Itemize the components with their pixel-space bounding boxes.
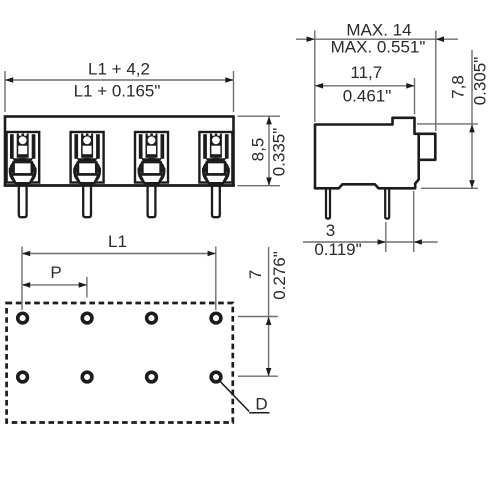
dimension 3: right arrow (outside, pointing left): [414, 239, 422, 245]
dimension L1: right arrow: [208, 251, 216, 257]
pole 1 wire hole square: [18, 146, 27, 155]
dimension 3: left arrow (outside, pointing right): [378, 239, 386, 245]
pole 3 screw slot: [142, 162, 160, 174]
front view housing body outline: [5, 117, 234, 186]
side view body right edge through tab: [417, 134, 420, 160]
pole 3 left slot bar: [139, 134, 143, 159]
dimension L1: left extension line: [21, 247, 23, 311]
svg-text:7,8: 7,8: [449, 75, 468, 99]
dimension 8,5: top arrow: [266, 116, 272, 124]
dimension 7: bottom extension line: [238, 375, 278, 377]
dimension MAX.14: left extension line: [314, 31, 316, 123]
pole 1 wire hole circle: [19, 136, 27, 144]
dimension 11,7: right extension line: [414, 78, 416, 114]
svg-text:L1 + 0.165": L1 + 0.165": [74, 82, 161, 101]
svg-text:L1 + 4,2: L1 + 4,2: [88, 60, 150, 79]
dimension MAX.14: right arrow (outside, pointing left): [436, 36, 444, 42]
pole 1 right slot bar: [32, 134, 36, 159]
svg-text:0.119": 0.119": [314, 240, 361, 259]
pole 4 screw side nubs: [202, 168, 206, 173]
footprint hole row 1 col 4: [211, 313, 221, 323]
pole 4 top notches: [212, 133, 215, 136]
dimension 8,5: bottom arrow: [266, 178, 272, 186]
pole 1 left slot bar: [10, 134, 14, 159]
pole 3 wire hole square: [147, 146, 156, 155]
dimension 7,8: bottom arrow: [469, 180, 475, 188]
dimension 7: bottom arrow: [266, 368, 272, 376]
dimension L1+4,2: dimension line: [5, 79, 234, 81]
pole 3 housing cell: [135, 132, 168, 183]
pole 2 housing cell: [71, 132, 104, 183]
dimension P: dimension line: [22, 284, 87, 286]
svg-text:7: 7: [246, 270, 265, 279]
dimension 3: left extension line (from right pin): [385, 222, 387, 252]
pole 2 screw bottom skirt: [76, 175, 99, 184]
svg-text:11,7: 11,7: [350, 63, 382, 82]
dimension 7: top extension line: [238, 316, 278, 318]
dimension 11,7: left arrow: [315, 83, 323, 89]
front view solder pin 2: [83, 184, 91, 217]
dimension MAX.14: right extension line: [435, 31, 437, 132]
dimension MAX.14: dimension line: [296, 38, 458, 40]
svg-text:0.305": 0.305": [470, 57, 489, 106]
pole 3 screw head circle: [139, 159, 164, 184]
dimension L1+4,2: left arrow: [5, 77, 13, 83]
pole 4 right slot bar: [225, 134, 229, 159]
dimension 8,5: top extension line: [238, 115, 281, 117]
side view left solder pin: [326, 186, 330, 219]
pole 4 screw slot: [207, 162, 225, 174]
svg-text:D: D: [255, 395, 267, 414]
dimension L1: right extension line: [215, 247, 217, 311]
svg-text:0.461": 0.461": [343, 87, 392, 106]
dimension P: right extension tick: [86, 277, 88, 298]
pole 2 wire hole square: [83, 146, 92, 155]
svg-text:8,5: 8,5: [249, 138, 268, 162]
svg-text:L1: L1: [108, 232, 127, 251]
pole 3 screw side nubs: [138, 168, 142, 173]
pole 4 screw bottom skirt: [204, 175, 227, 184]
dimension P: right arrow: [79, 282, 87, 288]
pole 4 housing cell: [199, 132, 232, 183]
pole 1 screw head circle: [10, 159, 35, 184]
svg-text:3: 3: [326, 221, 335, 240]
front view solder pin 3: [148, 184, 156, 217]
svg-text:0.335": 0.335": [269, 128, 288, 177]
pole 2 screw side nubs: [73, 168, 77, 173]
svg-text:MAX. 14: MAX. 14: [346, 20, 411, 39]
pole 4 wire hole square: [211, 146, 220, 155]
pole 1 clamp lower band: [13, 158, 33, 161]
footprint hole row 1 col 1: [18, 313, 28, 323]
pole 3 clamp lower band: [141, 158, 161, 161]
svg-text:P: P: [50, 263, 61, 282]
svg-text:0.276": 0.276": [270, 251, 289, 300]
footprint hole row 2 col 1: [18, 372, 28, 382]
pole 2 right slot bar: [96, 134, 100, 159]
pole 2 screw slot: [78, 162, 96, 174]
footprint hole row 1 col 3: [147, 313, 157, 323]
pole 1 housing cell: [7, 132, 40, 183]
dimension 7,8: dimension line: [471, 50, 473, 188]
side view housing outline: [315, 118, 435, 189]
pole 4 screw head circle: [203, 159, 228, 184]
dimension L1+4,2: right arrow: [225, 77, 233, 83]
front view solder pin 1: [19, 184, 27, 217]
dimension L1+4,2: left extension line: [4, 71, 6, 112]
pole 2 wire hole circle: [83, 136, 91, 144]
dimension 7,8: top arrow: [469, 124, 475, 132]
footprint hole row 2 col 3: [147, 372, 157, 382]
pole 1 top notches: [19, 133, 22, 136]
dimension 7,8: top extension line: [417, 123, 478, 125]
dimension L1: dimension line: [22, 253, 216, 255]
footprint hole row 2 col 4: [211, 372, 221, 382]
pole 4 clamp lower band: [206, 158, 226, 161]
pole 4 wire hole circle: [212, 136, 220, 144]
dimension 11,7: right arrow: [406, 83, 414, 89]
side view right solder pin: [385, 186, 389, 219]
leader underline for D: [249, 412, 269, 414]
pole 2 clamp lower band: [77, 158, 97, 161]
dimension 7,8: bottom extension line: [421, 187, 478, 189]
pole 3 clamp dark block: [146, 134, 158, 158]
dimension L1: left arrow: [22, 251, 30, 257]
dimension 11,7: dimension line: [315, 85, 415, 87]
pole 2 screw head circle: [75, 159, 100, 184]
pole 3 screw bottom skirt: [140, 175, 163, 184]
pole 4 clamp dark block: [210, 134, 222, 158]
svg-text:MAX. 0.551": MAX. 0.551": [331, 38, 426, 57]
dimension 7: dimension line: [268, 247, 270, 376]
dimension 8,5: dimension line: [268, 116, 270, 186]
dimension 3: right extension line (from housing edge): [413, 191, 415, 252]
dimension 3: dimension line: [303, 241, 438, 243]
pole 3 wire hole circle: [148, 136, 156, 144]
footprint hole row 2 col 2: [82, 372, 92, 382]
pole 3 top notches: [148, 133, 151, 136]
front view body bottom edge redraw: [4, 184, 235, 187]
footprint dashed outline: [7, 303, 233, 423]
pole 1 screw bottom skirt: [11, 175, 34, 184]
pole 3 right slot bar: [161, 134, 165, 159]
pole 1 screw slot: [14, 162, 32, 174]
footprint hole row 1 col 2: [82, 313, 92, 323]
leader line for hole diameter D: [221, 382, 250, 412]
pole 2 top notches: [83, 133, 86, 136]
dimension MAX.14: left arrow (outside, pointing right): [307, 36, 315, 42]
dimension 8,5: bottom extension line: [238, 185, 281, 187]
pole 2 left slot bar: [74, 134, 78, 159]
dimension P: left arrow: [22, 282, 30, 288]
pole 1 screw side nubs: [9, 168, 13, 173]
dimension L1+4,2: right extension line: [233, 71, 235, 112]
pole 1 clamp dark block: [17, 134, 29, 158]
pole 2 clamp dark block: [81, 134, 93, 158]
pole 4 left slot bar: [203, 134, 207, 159]
front view solder pin 4: [212, 184, 220, 217]
dimension 7: top arrow: [266, 317, 272, 325]
